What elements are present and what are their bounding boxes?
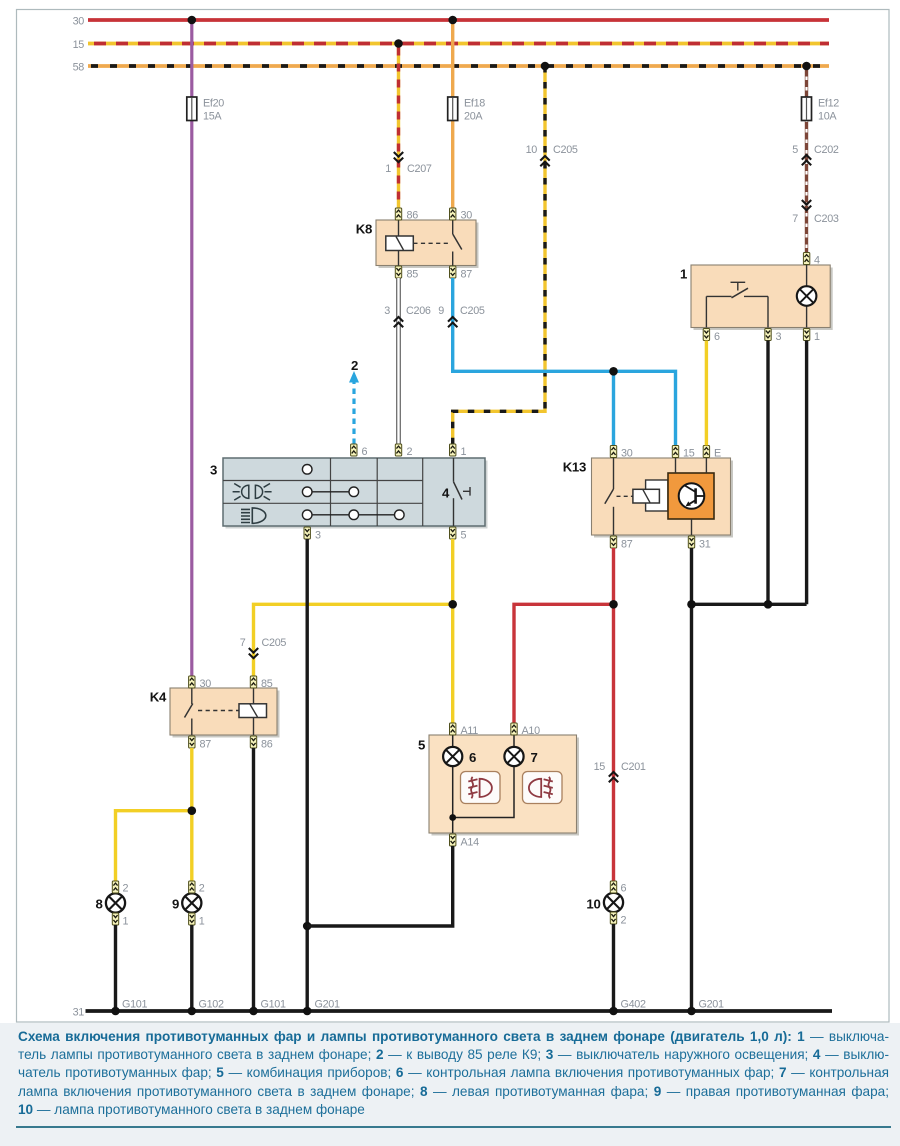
svg-text:1: 1 — [461, 446, 467, 458]
wire black: unit3 pin3 to ground — [306, 539, 309, 1011]
svg-text:87: 87 — [621, 539, 633, 551]
svg-text:2: 2 — [407, 446, 413, 458]
junction red at 613.5,604 — [609, 600, 618, 609]
junction black at 768,604 — [764, 600, 773, 609]
wire black: A14 to ground via unit3 pin3 wire — [307, 846, 453, 926]
K8 pin 85 — [395, 266, 418, 281]
junction on bus 15 at x=398.5 — [394, 39, 403, 48]
wire black: unit1 pin1 down — [805, 341, 808, 605]
low beam icon — [241, 508, 266, 523]
wire black: K4 pin86 to ground — [252, 748, 255, 1011]
unit1 pin 6 — [703, 329, 720, 344]
svg-text:7: 7 — [792, 213, 798, 225]
svg-text:C203: C203 — [814, 213, 839, 225]
connector C206 splice — [384, 305, 431, 327]
svg-text:G201: G201 — [315, 999, 341, 1011]
position lamps icon — [233, 484, 272, 501]
junction black at 691.5,604 — [687, 600, 696, 609]
svg-text:10: 10 — [586, 897, 600, 912]
svg-text:30: 30 — [621, 448, 633, 460]
unit3 pin 2 — [395, 444, 412, 458]
K8 switch contact — [453, 220, 462, 266]
K13 switch contact — [605, 458, 614, 535]
K4 pin 30 — [189, 676, 212, 690]
K13 electronic unit square — [668, 473, 714, 519]
control lamp 7 — [504, 747, 537, 766]
connector C205 splice below K8 pin87 — [438, 305, 485, 327]
connector C205 splice above K4 pin85 — [240, 637, 287, 658]
K4 pin 87 — [189, 736, 212, 751]
fog switch 4 — [442, 458, 470, 526]
lamp10 pin 6 — [610, 881, 626, 895]
svg-text:K13: K13 — [563, 460, 586, 475]
wire black: unit1 pin3 down — [766, 341, 769, 605]
wire black: K13 pin31 to ground — [690, 548, 693, 1011]
connector C201 splice — [594, 761, 646, 782]
svg-text:87: 87 — [200, 739, 212, 751]
ground junction lamp9 — [188, 1007, 197, 1016]
ground bus 31 — [73, 1007, 832, 1019]
unit3 pin 6 — [351, 444, 368, 458]
K4 coil — [239, 688, 267, 735]
svg-text:G101: G101 — [122, 999, 148, 1011]
unit3 column separator 2 — [376, 458, 378, 526]
unit5 pin A11 — [450, 723, 479, 737]
bus 30 wire — [88, 18, 829, 22]
svg-text:6: 6 — [362, 446, 368, 458]
svg-text:10A: 10A — [818, 111, 837, 123]
svg-text:8: 8 — [95, 897, 102, 912]
K4 pin 85 — [250, 676, 272, 690]
svg-text:C206: C206 — [406, 305, 431, 317]
unit3 column separator 3 — [422, 458, 424, 526]
wire yellow-black: bus58 to switch pin1 — [453, 66, 545, 444]
wire brown-white: bus58 to unit1 pin4 — [805, 66, 808, 253]
lamp10 pin 2 — [610, 912, 626, 927]
svg-text:K4: K4 — [150, 690, 167, 705]
svg-text:9: 9 — [172, 897, 179, 912]
unit1 pin 4 — [803, 253, 820, 267]
unit5 pin A14 — [450, 834, 480, 849]
svg-text:30: 30 — [73, 16, 85, 28]
unit1 pin 1 — [803, 329, 820, 344]
connector C205 splice on bus58 drop — [526, 144, 578, 166]
connector C203 splice — [792, 200, 839, 225]
ground junction lamp10 — [609, 1007, 618, 1016]
svg-text:6: 6 — [621, 883, 627, 895]
svg-text:4: 4 — [442, 486, 450, 501]
wire yellow: K4 pin87 to fog lamps 8 and 9 — [116, 748, 192, 881]
svg-text:4: 4 — [814, 255, 820, 267]
ground junction unit3-3 — [303, 1007, 312, 1016]
svg-text:G402: G402 — [621, 999, 647, 1011]
junction on bus 30 at x=191.8 — [188, 16, 197, 25]
svg-text:G101: G101 — [261, 999, 287, 1011]
junction on bus 58 at x=545 — [541, 62, 550, 71]
lamp9 pin 1 — [189, 913, 205, 928]
svg-text:A10: A10 — [522, 725, 541, 737]
svg-text:5: 5 — [418, 738, 425, 753]
svg-text:G102: G102 — [199, 999, 225, 1011]
unit3 contact row1 — [302, 465, 312, 475]
svg-text:30: 30 — [200, 678, 212, 690]
svg-text:1: 1 — [199, 916, 205, 928]
K13 pinE inner lead — [705, 458, 707, 473]
unit3 row separator 2 — [223, 502, 423, 504]
svg-text:86: 86 — [261, 739, 273, 751]
wire red: K13 pin87 to lamp10 and instrument cluster — [514, 548, 614, 881]
svg-text:1: 1 — [680, 267, 687, 282]
lamp9 pin 2 — [189, 881, 205, 895]
K13 pin 87 — [610, 536, 632, 551]
svg-text:Ef20: Ef20 — [203, 98, 224, 110]
control lamp 6 — [443, 747, 476, 766]
svg-text:3: 3 — [776, 331, 782, 343]
svg-text:85: 85 — [261, 678, 273, 690]
svg-text:6: 6 — [469, 750, 476, 765]
fuse Ef20 — [187, 97, 225, 123]
wire yellow: unit3 pin5 to instrument cluster and K4 — [254, 539, 453, 723]
svg-text:2: 2 — [351, 358, 358, 373]
svg-text:10: 10 — [526, 144, 538, 156]
fog lamp 9 — [172, 893, 201, 912]
unit1 push button — [706, 282, 768, 327]
svg-text:1: 1 — [385, 163, 391, 175]
svg-text:1: 1 — [123, 916, 129, 928]
wire black: lamp8 to ground — [114, 925, 117, 1011]
svg-text:Ef12: Ef12 — [818, 98, 839, 110]
svg-text:C202: C202 — [814, 144, 839, 156]
arrow 2 to relay K9 terminal 85 — [349, 358, 359, 444]
svg-text:2: 2 — [621, 915, 627, 927]
lamp8 pin 1 — [112, 913, 128, 928]
wire orange: bus30 to K8 pin30 — [451, 20, 454, 208]
svg-text:C205: C205 — [460, 305, 485, 317]
ground junction K4-86 — [249, 1007, 258, 1016]
relay K8 — [356, 220, 479, 268]
wire blue: K8 pin87 to K13 pins 30/15 — [453, 278, 676, 446]
svg-text:31: 31 — [73, 1007, 85, 1019]
svg-text:C205: C205 — [262, 637, 287, 649]
svg-text:15A: 15A — [203, 111, 222, 123]
unit5 pin A10 — [511, 723, 540, 737]
fuse Ef12 — [802, 97, 840, 123]
unit5 inner wiring — [453, 735, 514, 833]
K8 coil — [386, 220, 414, 266]
wire yellow: unit1 pin6 to K13 pinE — [705, 341, 708, 446]
svg-text:85: 85 — [407, 269, 419, 281]
wire black: lamp9 to ground — [190, 925, 193, 1011]
unit3 contact row2 — [302, 487, 358, 497]
K8 pin 30 — [450, 208, 473, 222]
fuse Ef18 — [448, 97, 486, 123]
svg-text:31: 31 — [699, 539, 711, 551]
K13 pin 15 — [672, 446, 694, 460]
fog lamp 8 — [95, 893, 125, 912]
K4 pin 86 — [250, 736, 272, 751]
bus 15 wire — [88, 42, 829, 46]
svg-text:3: 3 — [210, 463, 217, 478]
lamp8 pin 2 — [112, 881, 128, 895]
connector C207 splice — [385, 152, 432, 175]
svg-text:58: 58 — [73, 62, 85, 74]
rear fog lamp 10 — [586, 893, 623, 912]
junction on bus 30 at x=452.7 — [448, 16, 457, 25]
K8 pin 86 — [395, 208, 418, 222]
svg-text:A11: A11 — [461, 725, 479, 737]
unit3 contact row3 — [302, 510, 404, 520]
svg-text:30: 30 — [461, 210, 473, 222]
svg-text:9: 9 — [438, 305, 444, 317]
svg-text:2: 2 — [199, 883, 205, 895]
svg-text:Ef18: Ef18 — [464, 98, 485, 110]
front fog indicator icon — [461, 772, 501, 804]
svg-text:5: 5 — [792, 144, 798, 156]
caption — [0, 1023, 900, 1146]
svg-text:20A: 20A — [464, 111, 483, 123]
svg-text:15: 15 — [594, 761, 606, 773]
svg-text:15: 15 — [73, 39, 85, 51]
K13 pin E — [703, 446, 721, 460]
svg-text:A14: A14 — [461, 837, 480, 849]
wire white double: K8 pin85 to switch pin2 — [396, 278, 400, 444]
K13 pin31 inner lead — [691, 519, 693, 535]
connector C202 splice — [792, 144, 839, 165]
wire black horizontal link — [692, 603, 807, 606]
K8 pin 87 — [450, 266, 473, 281]
unit1 pin 3 — [765, 329, 782, 344]
unit3 column separator 1 — [330, 458, 332, 526]
K13 link dashes — [617, 495, 634, 497]
relay K13 — [563, 458, 733, 538]
K8 contact link dashes — [413, 242, 449, 244]
wire black: lamp10 to ground — [612, 924, 615, 1011]
svg-text:87: 87 — [461, 269, 473, 281]
bus 58 wire — [88, 64, 829, 68]
svg-text:G201: G201 — [699, 999, 725, 1011]
K13 inner frame — [646, 480, 668, 511]
unit1 indicator lamp — [797, 265, 817, 328]
junction yellow at 452.7,604 — [448, 600, 457, 609]
ground junction K13-31 — [687, 1007, 696, 1016]
wire blue branch to K13 pin30 — [612, 371, 615, 445]
K13 pin 31 — [688, 536, 710, 551]
svg-text:K8: K8 — [356, 222, 372, 237]
unit3 row separator 1 — [223, 480, 423, 482]
rear fog indicator icon — [523, 772, 563, 804]
svg-text:7: 7 — [531, 750, 538, 765]
svg-text:86: 86 — [407, 210, 419, 222]
K4 link dashes — [198, 710, 239, 712]
K13 coil — [633, 489, 660, 503]
unit5 inner junction — [449, 814, 456, 821]
junction blue at K13 pin30 drop — [609, 367, 618, 376]
ground junction lamp8 — [111, 1007, 120, 1016]
K13 pin 30 — [610, 446, 632, 460]
svg-text:3: 3 — [315, 530, 321, 542]
K4 switch contact — [185, 688, 193, 735]
svg-text:3: 3 — [384, 305, 390, 317]
svg-text:15: 15 — [683, 448, 695, 460]
svg-text:E: E — [714, 448, 721, 460]
K13 pin15 inner lead — [675, 458, 677, 473]
unit3 pin 3 — [304, 527, 321, 542]
instrument cluster unit 5 — [418, 735, 579, 836]
wire purple: bus30 to K4 pin30 — [190, 20, 193, 676]
svg-text:1: 1 — [814, 331, 820, 343]
unit3 pin 1 — [450, 444, 467, 458]
svg-text:C201: C201 — [621, 761, 646, 773]
junction yellow at 191.8,810.7 — [188, 806, 197, 815]
junction on bus 58 at x=806.5 — [802, 62, 811, 71]
svg-text:7: 7 — [240, 637, 246, 649]
svg-text:6: 6 — [714, 331, 720, 343]
K13 transistor Q — [685, 486, 704, 507]
junction black at 307.2,926 — [303, 922, 312, 931]
svg-text:C207: C207 — [407, 163, 432, 175]
wire yellow-red: bus15 to K8 pin86 — [397, 44, 400, 209]
svg-text:2: 2 — [123, 883, 129, 895]
unit3 pin 5 — [450, 527, 467, 542]
relay K4 — [150, 688, 280, 738]
svg-text:5: 5 — [461, 530, 467, 542]
svg-text:C205: C205 — [553, 144, 578, 156]
light switch unit 3 — [210, 458, 488, 529]
rear fog switch unit 1 — [680, 265, 833, 330]
